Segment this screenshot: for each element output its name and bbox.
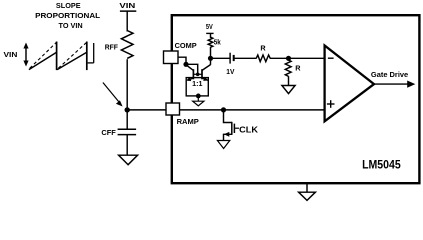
current mirror Q1 Q2 1:1 [186, 58, 211, 106]
wire base tie L-path [186, 64, 198, 74]
svg-text:1V: 1V [226, 67, 234, 76]
svg-text:Gate Drive: Gate Drive [371, 70, 408, 79]
annotation arrow to RAMP node [103, 83, 123, 107]
node mirror emitter rail [196, 94, 201, 99]
svg-text:1:1: 1:1 [192, 81, 202, 88]
svg-text:CFF: CFF [101, 128, 116, 137]
ground (CLK) [217, 141, 229, 149]
wire source with arrow [224, 134, 232, 140]
transistor CLK switch [221, 107, 259, 140]
sawtooth waveform dashed ramp 1 [30, 42, 57, 68]
svg-text:RFF: RFF [105, 43, 119, 52]
wire to mirror ground [197, 96, 199, 101]
wire RFF to RAMP junction and to CFF [126, 59, 128, 129]
wire junction to RAMP pin [127, 109, 167, 111]
wire base bar [193, 73, 202, 75]
channel bar [231, 122, 233, 135]
wire COMP pin to mirror [178, 57, 186, 64]
transistor Q2 collector [202, 65, 211, 71]
resistor R (shunt) [285, 58, 301, 85]
mirror ratio box 1:1 [186, 78, 208, 96]
transistor Q1 base bar [192, 69, 194, 79]
svg-text:CLK: CLK [239, 126, 258, 135]
svg-text:R: R [295, 63, 301, 72]
svg-text:5k: 5k [214, 37, 222, 46]
plus input marker [327, 103, 335, 105]
wire 5k to node [210, 47, 212, 58]
annotation text: slope proportional to VIN [35, 1, 101, 30]
node COMP junction [183, 62, 188, 67]
svg-text:TO VIN: TO VIN [59, 21, 83, 30]
transistor Q2 base bar [201, 69, 203, 79]
wire VIN terminal to RFF [126, 11, 128, 31]
transistor Q1 collector [186, 65, 193, 71]
sawtooth waveform solid ramp 2 [57, 52, 87, 69]
resistor RFF [105, 31, 133, 59]
svg-text:SLOPE: SLOPE [56, 1, 81, 10]
resistor R (series) [256, 43, 270, 61]
comparator U1 [325, 46, 374, 122]
svg-text:COMP: COMP [175, 41, 197, 50]
junction node (RFF/CFF/RAMP) [125, 107, 130, 112]
IC box LM5045 [172, 15, 420, 183]
gate lead [234, 127, 239, 129]
ground (current mirror) [193, 101, 204, 106]
svg-text:PROPORTIONAL: PROPORTIONAL [35, 11, 101, 20]
sawtooth falling edge 1 [56, 42, 58, 71]
transistor Q2 emitter with arrow [202, 78, 208, 80]
supply 5V [206, 22, 214, 38]
node R junction [286, 56, 291, 61]
wire CFF to ground [126, 135, 128, 156]
sawtooth waveform dashed ramp 2 [58, 42, 86, 68]
capacitor CFF [101, 128, 136, 137]
svg-text:VIN: VIN [119, 3, 135, 10]
pin RAMP box [166, 103, 180, 115]
sawtooth falling edge 2 [86, 42, 88, 71]
ground (CFF) [119, 155, 138, 165]
gate bar [233, 124, 235, 133]
svg-text:RAMP: RAMP [177, 117, 199, 126]
output Gate Drive [371, 70, 415, 88]
wire R to comparator minus input [270, 57, 325, 59]
transistor Q1 emitter with arrow [188, 78, 194, 80]
battery 1V [211, 53, 257, 76]
pin COMP box [164, 51, 179, 64]
wire RAMP pin to comparator plus input [180, 109, 325, 111]
svg-text:LM5045: LM5045 [362, 158, 401, 172]
minus input marker [328, 57, 334, 59]
sawtooth waveform solid ramp 1 [29, 52, 57, 69]
wire drain [224, 110, 232, 123]
sawtooth partial tooth 3 [88, 43, 94, 63]
svg-text:VIN: VIN [4, 50, 18, 59]
svg-text:5V: 5V [206, 22, 213, 31]
VIN amplitude double arrow [23, 43, 28, 67]
node 5k/mirror/battery junction [208, 56, 213, 61]
ground (IC bottom) [299, 184, 316, 201]
node VIN (top terminal) [119, 3, 136, 11]
node base junction [196, 73, 200, 77]
svg-text:R: R [260, 43, 266, 52]
node RAMP/CLK junction [221, 107, 226, 112]
ground (shunt R) [282, 86, 295, 94]
resistor 5k [208, 37, 221, 47]
wire Q2 collector to 5k node [210, 58, 212, 65]
